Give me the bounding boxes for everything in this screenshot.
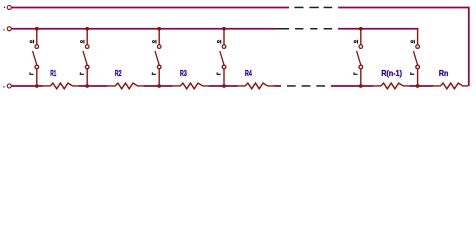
svg-text:R4: R4 <box>245 68 252 79</box>
svg-text:R3: R3 <box>180 68 187 79</box>
svg-text:R(n-1): R(n-1) <box>381 68 402 79</box>
svg-text:R1: R1 <box>50 68 56 79</box>
svg-text:Rn: Rn <box>439 68 449 79</box>
svg-text:R2: R2 <box>115 68 122 79</box>
